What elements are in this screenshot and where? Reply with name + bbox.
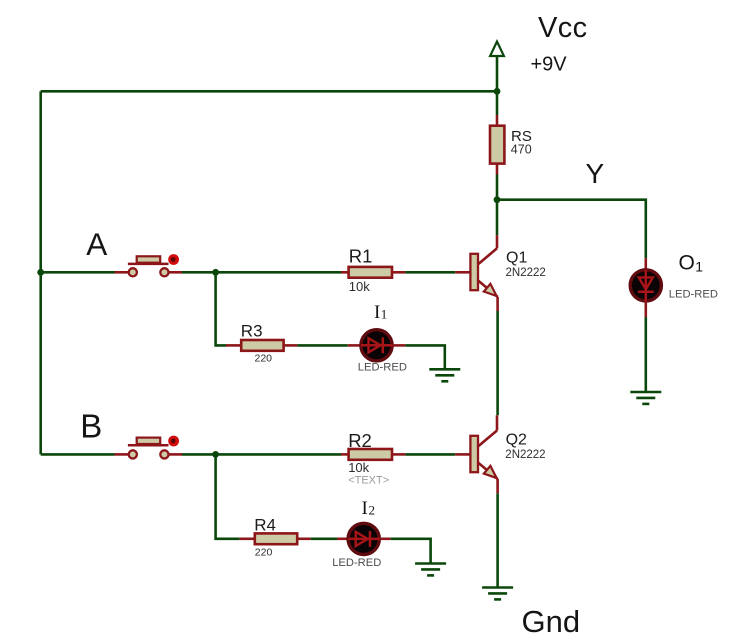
LED I2	[337, 523, 391, 554]
wire O1 to ground	[644, 317, 647, 392]
wire A left segment	[41, 271, 115, 274]
power symbol Vcc	[490, 42, 504, 116]
svg-text:R2: R2	[348, 430, 372, 451]
resistor R4	[240, 533, 311, 544]
wire I2 to ground	[391, 539, 431, 564]
wire A junction down to R3 row	[216, 272, 226, 345]
svg-text:Q1: Q1	[506, 250, 527, 267]
wire B junction down to R4 row	[216, 454, 240, 538]
junction top	[494, 88, 501, 95]
node Y junction	[494, 196, 501, 203]
transistor Q1	[455, 235, 497, 311]
svg-text:Gnd: Gnd	[522, 604, 581, 639]
svg-text:LED-RED: LED-RED	[669, 288, 718, 300]
svg-text:Q2: Q2	[506, 431, 527, 448]
svg-text:220: 220	[255, 546, 273, 558]
svg-text:Y: Y	[586, 158, 605, 189]
resistor R3	[226, 340, 297, 351]
svg-text:A: A	[86, 226, 107, 262]
junction A left	[37, 269, 44, 276]
svg-text:10k: 10k	[349, 279, 370, 294]
ground G2	[415, 564, 446, 576]
svg-text:R3: R3	[241, 322, 263, 341]
ground G4	[630, 392, 661, 404]
LED O1	[630, 258, 661, 317]
wire I1 to ground	[405, 345, 445, 369]
wire R2 to Q2 base	[405, 453, 455, 456]
svg-text:R1: R1	[349, 246, 373, 267]
svg-text:220: 220	[255, 352, 273, 364]
pushbutton B	[115, 436, 183, 459]
wire Q1 emitter to Q2 collector	[496, 311, 499, 415]
wire R1 to Q1 base	[405, 271, 455, 274]
pushbutton A	[115, 254, 183, 276]
ground G1	[429, 369, 460, 381]
wire R3 to I1	[297, 344, 348, 347]
svg-text:I: I	[374, 302, 380, 323]
junction B column	[212, 451, 219, 458]
svg-text:10k: 10k	[348, 460, 369, 475]
svg-text:+9V: +9V	[531, 54, 568, 76]
wire Q2 emitter to ground	[496, 493, 499, 587]
svg-text:LED-RED: LED-RED	[358, 362, 407, 374]
svg-text:I: I	[362, 498, 368, 519]
transistor Q2	[455, 415, 497, 493]
svg-text:B: B	[80, 407, 102, 444]
wire button B to R2	[182, 453, 341, 456]
svg-text:2: 2	[369, 502, 376, 517]
svg-text:2N2222: 2N2222	[506, 267, 546, 279]
wire node Y to O1	[497, 200, 646, 259]
svg-text:R4: R4	[254, 516, 276, 535]
wire left vertical	[39, 91, 42, 454]
svg-text:Vcc: Vcc	[538, 12, 588, 44]
resistor RS	[490, 115, 504, 175]
wire R4 to I2	[311, 537, 337, 540]
junction A column	[212, 269, 219, 276]
svg-text:O: O	[679, 251, 695, 274]
svg-text:470: 470	[511, 143, 532, 157]
resistor R1	[341, 267, 405, 278]
wire button A to R1	[182, 271, 341, 274]
wire B left segment	[41, 453, 115, 456]
svg-text:1: 1	[381, 306, 388, 321]
svg-text:<TEXT>: <TEXT>	[348, 474, 389, 486]
svg-text:1: 1	[695, 258, 703, 274]
resistor R2	[341, 449, 405, 460]
svg-text:2N2222: 2N2222	[505, 449, 545, 461]
wire RS to node Y	[496, 175, 499, 236]
wire top horizontal	[41, 90, 497, 93]
ground G3	[482, 588, 513, 600]
LED I1	[348, 330, 406, 361]
svg-text:LED-RED: LED-RED	[332, 557, 381, 569]
